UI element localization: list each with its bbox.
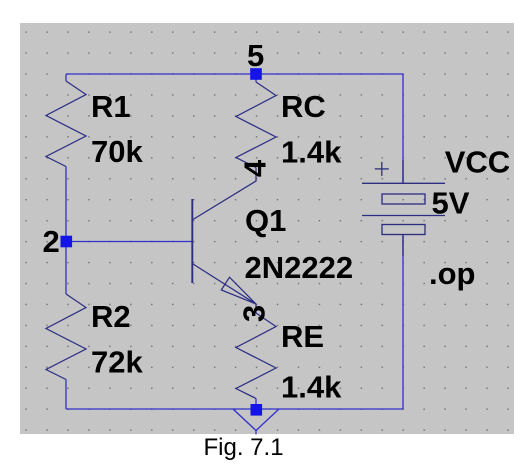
wire right upper (VCC to battery +): [402, 74, 404, 183]
svg-text:RE: RE: [281, 319, 324, 354]
wire emitter stub (Q1 emitter to RE): [255, 304, 257, 313]
resistor R1: [46, 81, 86, 167]
resistor R2: [46, 294, 86, 380]
wire base (node 2 to Q1 base): [66, 241, 193, 243]
svg-text:2: 2: [43, 224, 60, 259]
wire emitter (RE bottom to ground node): [255, 399, 257, 410]
wire right lower (battery - to bottom rail): [402, 235, 404, 410]
wire left upper (top rail to R1): [65, 74, 67, 81]
node 2 junction square: [61, 236, 73, 248]
svg-text:5V: 5V: [432, 186, 470, 221]
svg-text:4: 4: [238, 159, 273, 177]
wire collector (RC bottom stub): [255, 74, 257, 82]
svg-text:3: 3: [237, 305, 272, 322]
ground node junction square: [251, 404, 263, 416]
wire left lower (R2 to bottom rail): [65, 380, 67, 410]
svg-text:VCC: VCC: [445, 145, 510, 180]
svg-text:R2: R2: [91, 299, 131, 334]
svg-text:RC: RC: [281, 89, 326, 124]
svg-text:1.4k: 1.4k: [281, 135, 342, 170]
svg-text:R1: R1: [91, 89, 131, 124]
svg-text:70k: 70k: [91, 134, 143, 169]
svg-text:2N2222: 2N2222: [245, 250, 354, 285]
transistor Q1: [192, 168, 256, 305]
svg-text:1.4k: 1.4k: [281, 370, 342, 405]
wire left middle (R1 to node 2 to R2): [65, 167, 67, 295]
resistor RC: [236, 82, 276, 168]
svg-text:Fig. 7.1: Fig. 7.1: [204, 434, 284, 461]
svg-text:Q1: Q1: [245, 203, 286, 238]
svg-text:.op: .op: [429, 256, 476, 291]
ground: [233, 409, 279, 434]
resistor RE: [236, 313, 276, 399]
voltage source VCC battery: [362, 160, 445, 256]
wire top (node 5 rail): [66, 73, 403, 75]
svg-text:5: 5: [247, 38, 264, 73]
svg-text:72k: 72k: [91, 345, 143, 380]
node 5 junction square: [250, 68, 262, 80]
wire bottom rail: [66, 408, 403, 410]
